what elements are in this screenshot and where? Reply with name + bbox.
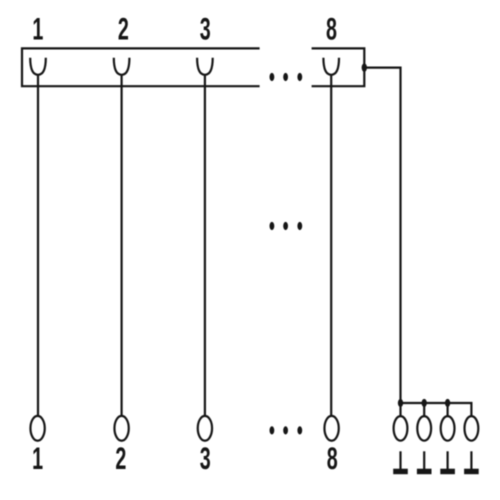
wire from junction to PE bus [364,68,400,403]
junction node PE 3 [445,399,450,407]
svg-text:3: 3 [200,11,211,47]
connector body right segment [312,48,365,86]
socket contact pin 3 [197,58,213,75]
junction node on connector right edge [362,63,367,71]
wire pin 2 [120,75,122,416]
ground symbol 2 [417,451,432,474]
svg-text:2: 2 [115,440,126,476]
stub PE terminal 1 [399,403,401,416]
stub PE terminal 3 [447,403,449,416]
terminal circle 3 [198,416,212,441]
socket contact pin 8 [323,58,339,75]
junction node PE 2 [422,399,427,407]
svg-text:1: 1 [32,440,43,476]
PE terminal circle 3 [441,416,455,441]
wire pin 3 [204,75,206,416]
PE terminal circle 2 [417,416,431,441]
ellipsis dots (terminal row) [270,426,303,434]
wire pin 8 [330,75,332,416]
svg-text:2: 2 [118,11,129,47]
svg-text:8: 8 [326,11,337,47]
ground symbol 1 [393,451,408,474]
PE bus wire [401,403,472,416]
svg-text:1: 1 [32,11,43,47]
socket contact pin 1 [30,58,46,75]
stub PE terminal 2 [423,403,425,416]
terminal circle 2 [114,416,128,441]
ground symbol 4 [464,451,479,474]
ellipsis dots (connector row) [270,73,303,81]
terminal circle 1 [30,416,44,441]
wire pin 1 [37,75,39,416]
svg-text:3: 3 [200,440,211,476]
terminal circle 8 [324,416,338,441]
PE terminal circle 1 [394,416,408,441]
ellipsis dots (middle of wires) [270,222,303,230]
PE terminal circle 4 [465,416,479,441]
junction node PE 1 [398,399,403,407]
socket contact pin 2 [114,58,130,75]
ground symbol 3 [440,451,455,474]
svg-text:8: 8 [327,440,338,476]
connector body left segment [22,48,260,86]
